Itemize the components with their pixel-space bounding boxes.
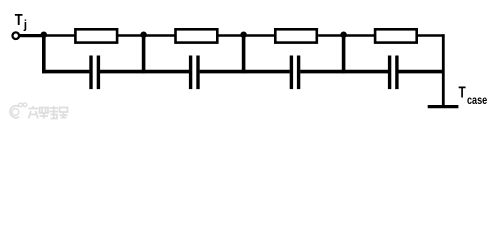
svg-text:case: case [467, 93, 487, 107]
wire node B down [142, 35, 146, 73]
wire right rail vertical [442, 34, 445, 105]
capacitor C1 [91, 56, 98, 90]
wire node C down [242, 35, 246, 73]
node D [340, 32, 346, 38]
capacitor C3 [291, 56, 298, 90]
label Tcase [459, 85, 488, 107]
wire Tj to node A [19, 34, 43, 37]
wire R1 to node B [118, 34, 144, 36]
wire R2 to node C [219, 34, 244, 36]
wire node D to R4 [344, 34, 376, 36]
svg-text:T: T [459, 85, 467, 102]
capacitor C4 [390, 56, 397, 90]
wire bottom node A to C1 [42, 70, 89, 74]
label Tj [15, 12, 27, 32]
svg-text:j: j [23, 17, 27, 31]
resistor R2 [176, 29, 218, 42]
wire node B to R2 [144, 34, 176, 36]
resistor R4 [375, 29, 417, 42]
node C [240, 32, 246, 38]
wire C4 to right rail [399, 70, 445, 74]
resistor R1 [75, 29, 117, 42]
wire C3 to node D bottom [300, 70, 388, 74]
wire C2 to node C bottom [200, 70, 290, 74]
wire node A to R1 [44, 34, 76, 36]
wire node D down [342, 35, 346, 73]
wire node C to R3 [244, 34, 276, 36]
wire R3 to node D [318, 34, 344, 36]
terminal Tj [13, 32, 20, 39]
resistor R3 [275, 29, 317, 42]
capacitor C2 [191, 56, 198, 90]
wire R4 to right rail [418, 34, 445, 36]
wire node A down [42, 35, 46, 73]
node B [140, 32, 146, 38]
ground Tcase [428, 105, 459, 108]
svg-text:T: T [15, 12, 23, 29]
node A [41, 32, 47, 38]
wire C1 to node B bottom [100, 70, 189, 74]
